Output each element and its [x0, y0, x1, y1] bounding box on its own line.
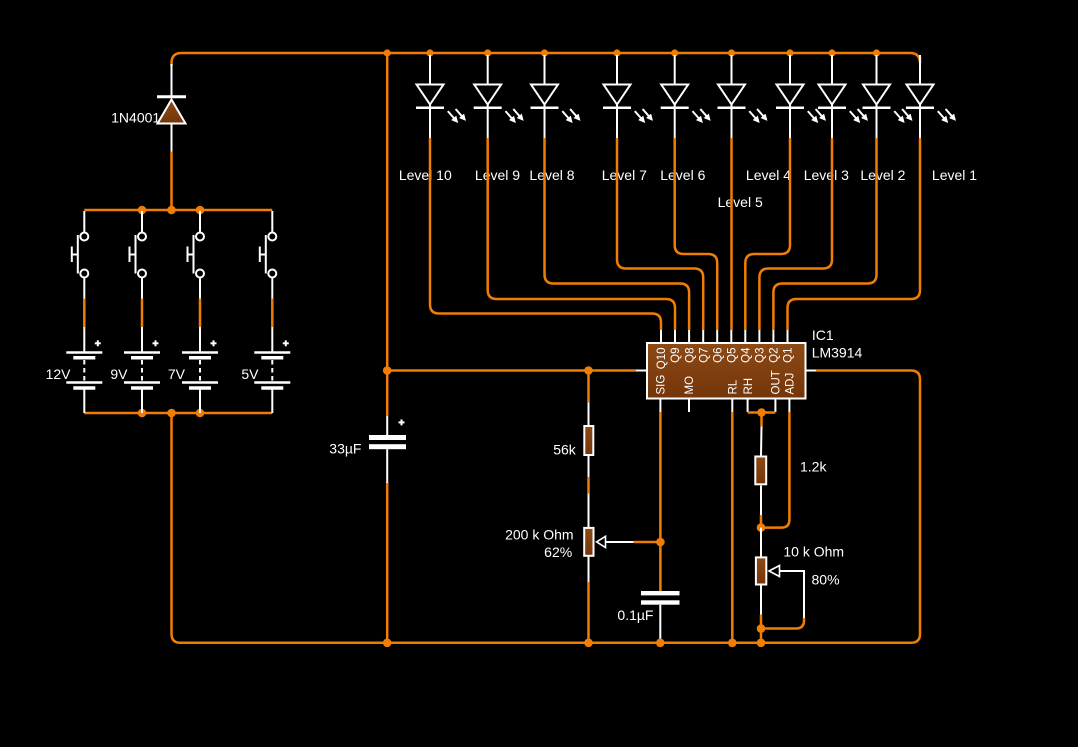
wire junction to 10k pot [760, 528, 762, 557]
label Level 3 [804, 167, 849, 183]
svg-text:Q6: Q6 [712, 348, 724, 363]
LED D2 (Level 2) [863, 85, 909, 139]
node top rail junction LED level 3 [828, 49, 835, 56]
wire ADJ pin to junction [761, 412, 789, 528]
node 10k bottom / wiper junction [757, 624, 766, 633]
svg-text:SIG: SIG [656, 375, 668, 395]
label IC1 [812, 327, 834, 343]
pin label RH [743, 378, 755, 395]
svg-text:Q1: Q1 [783, 348, 795, 363]
node top rail junction LED level 4 [786, 49, 793, 56]
pin Q4 stub [744, 330, 746, 343]
node top rail junction LED level 2 [873, 49, 880, 56]
node ground rail junction [757, 639, 766, 648]
svg-text:Level 2: Level 2 [860, 167, 905, 183]
switch S2 pushbutton [130, 233, 147, 278]
LED D6 (Level 6) [661, 85, 707, 139]
label Level 7 [602, 167, 647, 183]
pin Q1 stub [787, 330, 789, 343]
node ground rail junction [383, 639, 392, 648]
node ground rail junction [656, 639, 665, 648]
label Level 8 [529, 167, 574, 183]
op-amp IC U1 LM3914 body [647, 343, 806, 399]
wire RL pin to ground rail [731, 412, 734, 643]
wire RH to OUT connector [748, 411, 776, 414]
node IC wire junction at left rail [383, 366, 392, 375]
svg-text:Level 8: Level 8 [529, 167, 574, 183]
wire LED1 to IC pin Q1 [788, 138, 921, 330]
label 80% [812, 572, 840, 588]
LED D10 (Level 10) [416, 85, 462, 139]
label battery 5V [241, 366, 259, 382]
svg-text:7V: 7V [168, 366, 186, 382]
wire from left rail to IC SIG-side pin [387, 369, 636, 372]
wire junction to 1.2k [760, 413, 763, 457]
wire battery bottom bus [84, 412, 272, 415]
label 62% [544, 544, 572, 560]
svg-text:5V: 5V [241, 366, 259, 382]
pin label Q10 [656, 348, 668, 370]
wire battery B3 to bottom bus [199, 390, 201, 414]
wire battery B1 to bottom bus [83, 390, 85, 414]
svg-text:62%: 62% [544, 544, 572, 560]
potentiometer R2 200k body [584, 528, 593, 556]
svg-text:12V: 12V [46, 366, 72, 382]
node top rail junction LED level 6 [671, 49, 678, 56]
node battery top bus junction [167, 206, 176, 215]
LED D7 (Level 7) [603, 85, 649, 139]
wire left mid rail (top rail to IC wire) [386, 53, 389, 416]
pin label SIG [656, 375, 668, 395]
label LM3914 [812, 345, 863, 361]
label 10 k Ohm [783, 544, 844, 560]
battery B4 5V [254, 340, 290, 388]
pin Q10 stub [660, 330, 662, 343]
node ground rail junction [728, 639, 737, 648]
diode D1 1N4001 body [158, 100, 186, 124]
wire switch S1 to battery B1 [83, 278, 85, 352]
wire battery top bus [84, 209, 272, 212]
pin label Q6 [712, 348, 724, 363]
svg-text:9V: 9V [110, 366, 128, 382]
wire LED8 to IC pin Q8 [545, 138, 690, 330]
wire switch S3 to battery B3 [199, 278, 201, 352]
label Level 2 [860, 167, 905, 183]
pin label Q5 [727, 348, 739, 363]
node top rail junction LED level 8 [541, 49, 548, 56]
pin Q5 stub [730, 330, 732, 343]
label Level 6 [660, 167, 705, 183]
wire 200k wiper to SIG line [634, 541, 661, 544]
potentiometer R2 wiper arrow [597, 536, 634, 547]
pin ADJ stub [788, 399, 790, 413]
battery B2 9V [124, 340, 160, 388]
svg-text:Q10: Q10 [656, 348, 668, 370]
resistor R3 1.2k [755, 457, 766, 485]
wire bus to switch S4 [271, 211, 273, 233]
node battery bottom bus junction [167, 409, 176, 418]
wire 0.1uF to ground rail [659, 605, 661, 643]
pin Q6 stub [716, 330, 718, 343]
svg-text:Level 1: Level 1 [932, 167, 977, 183]
svg-text:Level 7: Level 7 [602, 167, 647, 183]
svg-text:Q8: Q8 [684, 348, 696, 363]
wire LED5 to IC pin Q5 [730, 138, 733, 330]
pin Q2 stub [772, 330, 774, 343]
wire top rail to LED4 [789, 55, 791, 85]
svg-text:IC1: IC1 [812, 327, 834, 343]
svg-text:Q5: Q5 [727, 348, 739, 363]
wire LED7 to IC pin Q7 [617, 138, 703, 330]
LED D8 (Level 8) [531, 85, 577, 139]
pin label RL [728, 379, 740, 394]
svg-text:80%: 80% [812, 572, 840, 588]
svg-text:33µF: 33µF [329, 441, 361, 457]
label battery 12V [46, 366, 72, 382]
battery B1 12V [66, 340, 102, 388]
node ADJ / 1.2k / 10k junction [757, 523, 766, 532]
label Level 5 [718, 194, 763, 210]
wire top rail to LED3 [831, 55, 833, 85]
wire switch S4 to battery B4 [271, 278, 273, 352]
wire LED4 to IC pin Q4 [745, 138, 790, 330]
node top rail junction LED level 10 [426, 49, 433, 56]
battery B3 7V [182, 340, 218, 388]
switch S4 pushbutton [260, 233, 277, 278]
svg-text:0.1µF: 0.1µF [617, 607, 653, 623]
label battery 7V [168, 366, 186, 382]
label Level 9 [475, 167, 520, 183]
node top rail junction LED level 7 [613, 49, 620, 56]
svg-text:Level 5: Level 5 [718, 194, 763, 210]
wire 10k wiper loop to bottom junction [761, 618, 804, 629]
node top rail junction LED level 9 [484, 49, 491, 56]
pin RL stub [731, 399, 733, 413]
wire top rail to LED7 [616, 55, 618, 85]
svg-text:Q2: Q2 [769, 348, 781, 363]
wire 33uF to ground rail [386, 449, 388, 483]
wire LED9 to IC pin Q9 [488, 138, 675, 330]
svg-text:OUT: OUT [771, 370, 783, 394]
wire bus to switch S2 [141, 211, 143, 233]
node RH-OUT junction [757, 408, 766, 417]
svg-text:200 k Ohm: 200 k Ohm [505, 527, 573, 543]
wire top rail to LED2 [876, 55, 878, 85]
pin stub IC right (V-) [806, 370, 817, 372]
pin Q3 stub [758, 330, 760, 343]
wire battery B2 to bottom bus [141, 390, 143, 414]
svg-text:Level 4: Level 4 [746, 167, 791, 183]
wire switch S2 to battery B2 [141, 278, 143, 352]
wire bus to switch S3 [199, 211, 201, 233]
node ground rail junction [584, 639, 593, 648]
wire left rail into 33uF [386, 416, 388, 435]
wire top rail to LED10 [429, 55, 431, 85]
label 1N4001 [111, 110, 160, 126]
pin label OUT [771, 370, 783, 394]
node battery top bus junction [138, 206, 147, 215]
pin label Q7 [698, 348, 710, 363]
label 33uF [329, 441, 361, 457]
pin SIG stub [659, 399, 661, 413]
wire bus to switch S1 [83, 211, 85, 233]
svg-text:MO: MO [684, 376, 696, 395]
svg-text:RL: RL [728, 379, 740, 394]
node IC wire junction at 56k [584, 366, 593, 375]
label Level 10 [399, 167, 452, 183]
svg-text:Q4: Q4 [741, 347, 753, 363]
wire LED10 to IC pin Q10 [430, 138, 661, 330]
pin Q8 stub [688, 330, 690, 343]
label Level 1 [932, 167, 977, 183]
wire IC wire to 56k [587, 371, 590, 426]
svg-text:56k: 56k [553, 442, 577, 458]
pin label Q2 [769, 348, 781, 363]
pin Q9 stub [674, 330, 676, 343]
resistor R1 56k [584, 426, 593, 455]
svg-text:Level 6: Level 6 [660, 167, 705, 183]
wire SIG pin down to 0.1uF [659, 412, 662, 591]
wire battery B4 to bottom bus [271, 390, 273, 414]
wire 10k pot bottom to ground rail [760, 585, 762, 643]
potentiometer R4 wiper arrow [769, 566, 804, 619]
svg-text:Q3: Q3 [755, 348, 767, 363]
wire top rail to LED9 [487, 55, 489, 85]
svg-text:Q7: Q7 [698, 348, 710, 363]
potentiometer R4 10k body [756, 557, 766, 584]
wire LED6 to IC pin Q6 [675, 138, 718, 330]
label 1.2k [800, 459, 827, 475]
wire left mid rail (below 33uF to ground rail) [386, 483, 389, 643]
pin MO stub [688, 399, 690, 413]
capacitor C1 33uF (polarized) [369, 419, 406, 449]
pin OUT stub [774, 399, 776, 413]
label 200 k Ohm [505, 527, 573, 543]
svg-text:1N4001: 1N4001 [111, 110, 160, 126]
LED D9 (Level 9) [474, 85, 520, 139]
label 0.1uF [617, 607, 653, 623]
node battery bottom bus junction [138, 409, 147, 418]
svg-text:1.2k: 1.2k [800, 459, 827, 475]
diode D1 1N4001 cathode bar [157, 95, 186, 98]
node battery top bus junction [196, 206, 205, 215]
wire LED2 to IC pin Q2 [773, 138, 876, 330]
switch S1 pushbutton [72, 233, 89, 278]
wire top rail to LED6 [674, 55, 676, 85]
capacitor C2 0.1uF [641, 591, 680, 605]
node SIG and 200k wiper junction [656, 538, 665, 547]
LED D1 (Level 1) [906, 85, 952, 139]
label Level 4 [746, 167, 791, 183]
svg-text:10 k Ohm: 10 k Ohm [783, 544, 844, 560]
svg-text:LM3914: LM3914 [812, 345, 863, 361]
svg-text:ADJ: ADJ [785, 373, 797, 395]
LED D5 (Level 5) [718, 85, 764, 139]
wire top power rail [172, 53, 921, 66]
wire diode top connection [171, 64, 173, 96]
node top rail junction at left mid rail [384, 49, 391, 56]
pin label Q3 [755, 348, 767, 363]
wire 1.2k to ADJ junction [760, 486, 762, 528]
pin label Q4 [741, 347, 753, 363]
wire top rail to LED1 [919, 55, 921, 85]
wire LED3 to IC pin Q3 [759, 138, 832, 330]
pin Q7 stub [702, 330, 704, 343]
wire 56k to 200k pot [588, 456, 590, 527]
LED D3 (Level 3) [818, 85, 864, 139]
label battery 9V [110, 366, 128, 382]
pin stub IC left (V+) [636, 370, 647, 372]
node battery bottom bus junction [196, 409, 205, 418]
pin label Q9 [670, 348, 682, 363]
label 56k [553, 442, 577, 458]
svg-text:Level 3: Level 3 [804, 167, 849, 183]
wire diode anode to battery bus [171, 125, 173, 211]
svg-text:Level 9: Level 9 [475, 167, 520, 183]
wire 200k pot to ground rail [588, 556, 590, 643]
svg-text:Q9: Q9 [670, 348, 682, 363]
node top rail junction LED level 5 [728, 49, 735, 56]
wire top rail to LED8 [544, 55, 546, 85]
svg-text:Level 10: Level 10 [399, 167, 452, 183]
pin label Q8 [684, 348, 696, 363]
wire bottom ground rail with right rail [172, 371, 921, 643]
svg-text:RH: RH [743, 378, 755, 395]
wire top rail to LED5 [731, 55, 733, 85]
pin label MO [684, 376, 696, 395]
switch S3 pushbutton [188, 233, 205, 278]
pin label Q1 [783, 348, 795, 363]
LED D4 (Level 4) [776, 85, 822, 139]
pin RH stub [747, 399, 749, 413]
pin label ADJ [785, 373, 797, 395]
